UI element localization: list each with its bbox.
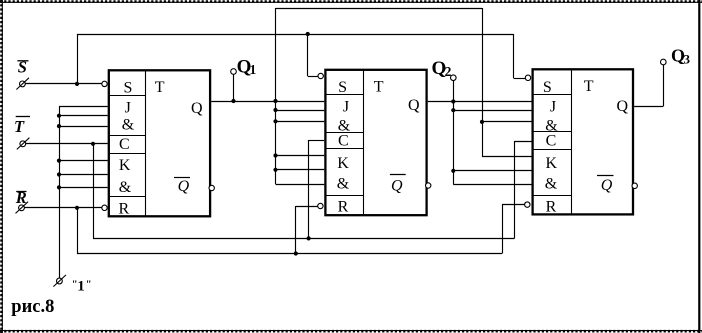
svg-text:C: C [119, 136, 130, 153]
svg-text:Q: Q [178, 178, 190, 195]
svg-text:T: T [14, 117, 25, 136]
svg-text:Q: Q [601, 177, 613, 194]
svg-text:Q: Q [391, 177, 403, 194]
svg-text:&: & [337, 175, 350, 192]
svg-text:S: S [124, 79, 133, 96]
svg-text:R: R [118, 201, 129, 218]
svg-text:&: & [119, 179, 132, 196]
svg-text:T: T [584, 78, 594, 95]
svg-text:Q: Q [617, 98, 629, 115]
svg-text:рис.8: рис.8 [11, 297, 54, 317]
svg-text:J: J [550, 98, 556, 115]
svg-text:1: 1 [250, 62, 257, 77]
svg-text:R: R [338, 198, 349, 215]
svg-text:S: S [338, 79, 347, 96]
svg-text:K: K [119, 157, 131, 174]
svg-text:R: R [546, 198, 557, 215]
svg-text:J: J [125, 100, 131, 117]
svg-text:C: C [338, 132, 349, 149]
svg-text:J: J [343, 98, 349, 115]
svg-text:Q: Q [191, 100, 203, 117]
svg-text:2: 2 [445, 64, 452, 79]
svg-text:&: & [122, 117, 135, 134]
svg-text:K: K [337, 155, 349, 172]
svg-text:Q: Q [408, 97, 420, 114]
svg-text:&: & [545, 175, 558, 192]
svg-text:T: T [155, 79, 165, 96]
svg-text:S: S [543, 79, 552, 96]
svg-text:1: 1 [77, 278, 85, 294]
svg-text:K: K [546, 155, 558, 172]
svg-text:T: T [374, 79, 384, 96]
svg-text:": " [86, 280, 92, 291]
svg-text:3: 3 [684, 52, 691, 67]
svg-text:C: C [546, 132, 557, 149]
